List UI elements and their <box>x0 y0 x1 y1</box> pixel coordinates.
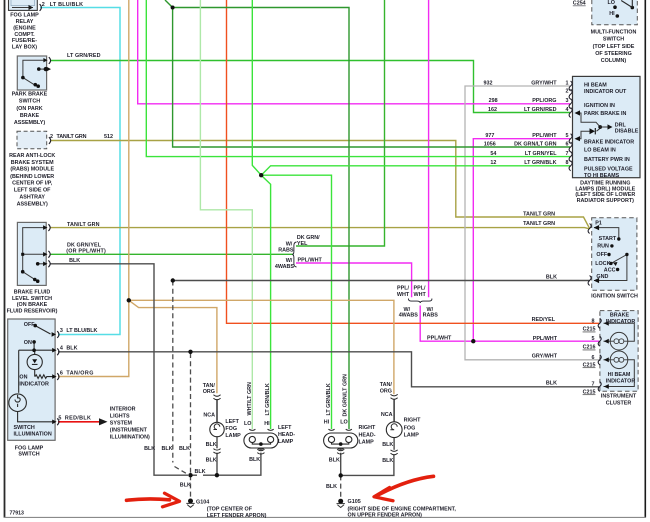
svg-text:OFF: OFF <box>596 252 607 258</box>
svg-text:C254: C254 <box>573 1 586 7</box>
svg-text:932: 932 <box>484 80 493 86</box>
svg-text:TAN/: TAN/ <box>380 382 393 388</box>
svg-text:BRAKE FLUID: BRAKE FLUID <box>14 289 51 295</box>
svg-text:RIGHT: RIGHT <box>404 418 421 424</box>
wire NCA: left fog lamp feed below connector <box>216 400 218 423</box>
wire BLK: left fog lamp ground drop <box>216 437 218 476</box>
svg-text:LIGHTS: LIGHTS <box>110 414 130 420</box>
svg-text:ON: ON <box>24 340 32 346</box>
park brake switch box <box>17 56 46 90</box>
svg-text:ASHTRAY: ASHTRAY <box>19 195 45 201</box>
wire LT GRN/BLK: top edge to fork junction <box>252 0 261 175</box>
svg-text:LT GRN/RED: LT GRN/RED <box>67 53 101 59</box>
node: right lamps ground junction G105 <box>339 473 343 477</box>
wire LT BLU/BLK cyan: relay pin2 to fog switch pin3 <box>40 8 120 335</box>
LED drop from pin4 line <box>34 350 36 354</box>
wire LT GRN/BLK branch to left headlamp HI <box>261 175 270 429</box>
svg-text:LEFT FENDER APRON): LEFT FENDER APRON) <box>207 513 267 519</box>
node: ground bus G104 junction <box>188 473 192 477</box>
svg-text:BRAKE: BRAKE <box>610 312 630 318</box>
svg-text:PARK BRAKE IN: PARK BRAKE IN <box>584 111 627 117</box>
svg-text:DK GRN/LT GRN: DK GRN/LT GRN <box>343 374 349 417</box>
svg-text:COMPT.: COMPT. <box>14 32 35 38</box>
svg-text:BLK: BLK <box>326 484 337 490</box>
pin brackets instrument cluster pins 8 5 6 7 <box>598 318 601 328</box>
switch arm OFF to pin3 <box>35 326 50 334</box>
bottom frame border <box>4 516 646 518</box>
right side wire labels <box>523 212 558 387</box>
svg-text:1: 1 <box>566 80 569 86</box>
svg-text:2: 2 <box>50 134 53 140</box>
svg-text:HI BEAM: HI BEAM <box>608 372 631 378</box>
svg-text:4: 4 <box>60 346 63 352</box>
svg-text:RED/BLK: RED/BLK <box>65 416 91 422</box>
svg-text:TAN/LT GRN: TAN/LT GRN <box>67 222 100 228</box>
svg-text:(ENGINE: (ENGINE <box>13 26 36 32</box>
svg-text:RELAY: RELAY <box>16 19 34 25</box>
label FOG LAMP RELAY <box>10 12 39 50</box>
svg-text:GND: GND <box>596 274 608 280</box>
pin bracket RABS pin2 <box>49 137 51 144</box>
svg-text:(ON BRAKE: (ON BRAKE <box>17 302 48 308</box>
svg-text:LAY BOX): LAY BOX) <box>12 45 37 51</box>
red arrow pointing at G105 <box>374 476 434 501</box>
wire LT GRN/RED: park brake switch to DRL pin4 <box>51 61 571 113</box>
svg-text:INSTRUMENT: INSTRUMENT <box>601 394 637 400</box>
pin brackets ignition switch P1 and GND <box>588 224 591 234</box>
connector left headlamp ground <box>257 449 264 454</box>
wire BLK ground bus segment at G104 <box>191 474 198 476</box>
svg-text:BLK: BLK <box>249 457 260 463</box>
wire DK GRN/YEL: brake fluid switch pin2 to brace <box>51 253 294 255</box>
svg-text:BLK: BLK <box>382 458 393 464</box>
ON contact drop <box>33 342 35 350</box>
label fog relay pin2 wire <box>42 2 83 8</box>
svg-text:ON UPPER FENDER APRON): ON UPPER FENDER APRON) <box>348 513 423 519</box>
wire RED/YEL: top edge down to instrument cluster pin8 <box>227 0 600 323</box>
node: PPL/WHT junction <box>471 339 475 343</box>
svg-text:ASSEMBLY): ASSEMBLY) <box>14 120 45 126</box>
svg-text:(BEHIND LOWER: (BEHIND LOWER <box>10 174 54 180</box>
svg-text:BLK: BLK <box>206 457 217 463</box>
connector left fog lamp top <box>213 395 220 400</box>
svg-text:G104: G104 <box>196 500 209 506</box>
label REAR ANTI-LOCK BRAKE SYSTEM <box>9 153 55 208</box>
brake indicator lamp <box>610 332 628 350</box>
svg-text:PPL/ORG: PPL/ORG <box>532 98 556 104</box>
wire LT GRN/BLK branch to right headlamp HI <box>261 175 331 429</box>
svg-text:LO: LO <box>340 420 348 426</box>
svg-text:BRAKE SYSTEM: BRAKE SYSTEM <box>11 160 54 166</box>
svg-text:BLK: BLK <box>144 446 155 452</box>
svg-text:ORG: ORG <box>380 389 392 395</box>
svg-text:7: 7 <box>592 382 595 388</box>
svg-text:NCA: NCA <box>203 412 215 418</box>
svg-text:LT GRN/BLK: LT GRN/BLK <box>524 160 556 166</box>
svg-text:C215: C215 <box>583 363 596 369</box>
DRL interior labels <box>584 82 639 179</box>
svg-text:PPL/WHT: PPL/WHT <box>532 133 557 139</box>
svg-text:LT GRN/RED: LT GRN/RED <box>524 107 557 113</box>
svg-text:GRY/WHT: GRY/WHT <box>531 80 557 86</box>
svg-text:6: 6 <box>592 355 595 361</box>
svg-text:LAMP: LAMP <box>278 439 294 445</box>
multi-function switch dashed box <box>592 0 638 25</box>
svg-text:LT GRN/BLK: LT GRN/BLK <box>265 383 271 415</box>
svg-text:TAN/ORG: TAN/ORG <box>66 371 93 377</box>
wire PPL/WHT from second brace to instrument cluster pin5 <box>420 306 599 342</box>
wire BLK ground bus right: to right fog lamp <box>341 454 394 475</box>
svg-text:RED/YEL: RED/YEL <box>532 317 556 323</box>
svg-text:8: 8 <box>592 318 595 324</box>
node: left lamps ground junction <box>215 473 219 477</box>
svg-text:TAN/LT GRN: TAN/LT GRN <box>523 212 555 218</box>
labels instrument cluster <box>601 312 637 406</box>
svg-text:C216: C216 <box>583 345 596 351</box>
svg-text:RABS: RABS <box>278 248 294 254</box>
svg-text:LAMP: LAMP <box>404 432 420 438</box>
svg-text:(ON PARK: (ON PARK <box>16 106 42 112</box>
svg-text:3: 3 <box>566 98 569 104</box>
park brake switch internals <box>23 60 46 86</box>
svg-text:CENTER OF I/P,: CENTER OF I/P, <box>12 181 53 187</box>
ground labels <box>196 499 456 519</box>
svg-text:6: 6 <box>566 141 569 147</box>
svg-text:4: 4 <box>566 107 569 113</box>
bulb to pin5 <box>18 412 55 422</box>
svg-text:PPL/: PPL/ <box>414 286 426 292</box>
resistor to pin6 <box>35 375 55 379</box>
svg-text:2: 2 <box>42 2 45 8</box>
svg-text:77913: 77913 <box>10 511 25 517</box>
svg-text:ILLUMINATION): ILLUMINATION) <box>110 435 150 441</box>
svg-text:BLK: BLK <box>66 346 77 352</box>
svg-text:PARK BRAKE: PARK BRAKE <box>12 92 48 98</box>
svg-text:5: 5 <box>58 416 61 422</box>
svg-text:BLK: BLK <box>162 446 173 452</box>
svg-text:BLK: BLK <box>195 469 206 475</box>
wire BLK: right headlamp ground drop to bus <box>340 448 342 475</box>
hi beam indicator lamp <box>610 351 628 369</box>
svg-text:HI BEAM: HI BEAM <box>584 82 607 88</box>
svg-text:OF STEERING: OF STEERING <box>595 51 632 57</box>
svg-text:MULTI-FUNCTION: MULTI-FUNCTION <box>591 30 637 36</box>
wire TAN/ORG branch to left fog lamp <box>129 300 217 393</box>
wire BLK: left headlamp ground to bus <box>217 453 261 476</box>
wire TAN/ORG branch to right fog lamp <box>129 300 394 394</box>
DRL module internals: DRL DISABLE logic <box>578 113 602 139</box>
svg-text:FOG: FOG <box>404 425 416 431</box>
svg-text:TAN/: TAN/ <box>203 383 216 389</box>
svg-text:LAMP: LAMP <box>225 433 241 439</box>
svg-text:INTERIOR: INTERIOR <box>110 407 136 413</box>
svg-text:TAN/LT GRN: TAN/LT GRN <box>57 134 87 140</box>
svg-text:ASSEMBLY): ASSEMBLY) <box>17 202 48 208</box>
svg-text:SWITCH: SWITCH <box>14 425 35 431</box>
svg-text:TAN/LT GRN: TAN/LT GRN <box>523 221 555 227</box>
svg-text:PPL/WHT: PPL/WHT <box>298 258 323 264</box>
connector right fog lamp ground <box>391 450 398 455</box>
svg-text:SWITCH: SWITCH <box>603 37 624 43</box>
ignition switch dashed box <box>592 218 637 290</box>
wire BLK bus to ignition switch GND <box>173 280 590 282</box>
svg-text:FOG LAMP: FOG LAMP <box>15 445 44 451</box>
svg-text:LEVEL SWITCH: LEVEL SWITCH <box>12 296 52 302</box>
svg-text:SWITCH: SWITCH <box>18 452 39 458</box>
DRL pin row labels <box>484 80 569 166</box>
connector right fog lamp top <box>391 394 398 399</box>
right frame border <box>644 0 646 518</box>
svg-text:W/: W/ <box>286 258 293 264</box>
svg-text:ON: ON <box>19 375 27 381</box>
svg-text:3: 3 <box>60 328 63 334</box>
svg-text:GRY/WHT: GRY/WHT <box>532 354 558 360</box>
node: DK GRN/LT GRN top junction <box>171 6 175 10</box>
pin4 internal line <box>19 349 55 351</box>
svg-text:54: 54 <box>490 151 496 157</box>
connector left fog lamp ground <box>213 449 220 454</box>
svg-text:NCA: NCA <box>381 412 393 418</box>
svg-text:LEFT: LEFT <box>278 425 292 431</box>
svg-text:5: 5 <box>592 336 595 342</box>
svg-text:SYSTEM: SYSTEM <box>110 421 133 427</box>
svg-text:DK GRN/LT GRN: DK GRN/LT GRN <box>514 141 557 147</box>
wire GRY/WHT: DRL pin1 to instrument cluster pin6 <box>465 86 599 360</box>
LED diode glyph <box>32 359 37 363</box>
svg-text:YEL: YEL <box>297 241 308 247</box>
svg-text:FLUID RESERVOIR): FLUID RESERVOIR) <box>7 309 58 315</box>
wire LT GRN/BLK branch to DRL pin8 <box>261 166 570 175</box>
svg-text:C215: C215 <box>583 327 596 333</box>
wire NCA: right fog lamp feed below connector <box>393 399 395 421</box>
svg-text:BLK: BLK <box>382 442 393 448</box>
svg-text:(TOP CENTER OF: (TOP CENTER OF <box>207 506 253 512</box>
svg-text:W/: W/ <box>286 242 293 248</box>
svg-text:FUSE/RE-: FUSE/RE- <box>12 38 37 44</box>
svg-text:PPL/WHT: PPL/WHT <box>427 336 452 342</box>
brace merging PPL/WHT pair <box>408 299 431 303</box>
svg-text:LT BLU/BLK: LT BLU/BLK <box>50 2 83 8</box>
svg-text:LEFT: LEFT <box>225 419 239 425</box>
svg-text:HI: HI <box>264 421 270 427</box>
svg-text:977: 977 <box>485 133 494 139</box>
bulb feed line <box>18 350 20 393</box>
wire BLK dashed: G105 drop <box>340 475 342 498</box>
svg-text:LAMP: LAMP <box>359 439 375 445</box>
diode in brake indicator path <box>590 128 596 134</box>
svg-text:LT GRN/BLK: LT GRN/BLK <box>326 383 332 415</box>
ground G105 <box>337 499 345 508</box>
svg-text:PPL/: PPL/ <box>397 286 409 292</box>
node: TAN/ORG junction <box>127 298 131 302</box>
svg-text:INDICATOR: INDICATOR <box>606 319 636 325</box>
svg-text:(RIGHT SIDE OF ENGINE COMPARTM: (RIGHT SIDE OF ENGINE COMPARTMENT, <box>348 506 457 512</box>
svg-text:(TOP LEFT SIDE: (TOP LEFT SIDE <box>593 44 635 50</box>
node: LT GRN/BLK fork junction <box>259 173 263 177</box>
arrows at DRL pins 4 and 5 <box>575 110 581 115</box>
svg-text:LEFT SIDE OF: LEFT SIDE OF <box>14 188 51 194</box>
svg-text:(OR PPL/WHT): (OR PPL/WHT) <box>66 249 106 255</box>
label PARK BRAKE SWITCH <box>12 92 48 127</box>
svg-text:LO: LO <box>244 421 252 427</box>
wire PPL/WHT: DRL pin5 down to junction on cluster wire <box>473 139 570 342</box>
fog lamp switch box <box>8 319 55 440</box>
svg-text:LT BLU/BLK: LT BLU/BLK <box>66 328 97 334</box>
svg-text:P1: P1 <box>595 221 602 227</box>
svg-text:HEAD-: HEAD- <box>359 432 376 438</box>
svg-text:HEAD-: HEAD- <box>278 432 295 438</box>
wire LT GRN/YEL: top edge to DRL pin7 <box>146 0 570 157</box>
wire BLK: right fog lamp ground drop <box>393 438 395 450</box>
wire BLK dashed: pin4 junction down to ground bus <box>190 353 192 473</box>
svg-text:4WABS: 4WABS <box>399 313 419 319</box>
pin brackets fog lamp switch <box>57 331 59 338</box>
svg-text:RABS: RABS <box>423 313 439 319</box>
svg-text:LO: LO <box>608 0 616 6</box>
LED to resistor <box>34 370 36 377</box>
wire TAN/LT GRN 512: RABS module to ignition switch P1 <box>51 141 590 229</box>
ignition switch internals <box>594 228 627 281</box>
svg-text:G105: G105 <box>348 499 361 505</box>
pin bracket park brake switch <box>49 57 51 64</box>
svg-text:PPL/WHT: PPL/WHT <box>533 336 558 342</box>
wire TAN/ORG branch to fog switch pin6 <box>58 300 129 376</box>
wire WHT/LT GRN: top edge to left headlamp LO <box>200 0 252 429</box>
arrowhead interior lights <box>99 418 108 425</box>
svg-text:CLUSTER: CLUSTER <box>606 400 632 406</box>
DRL module box <box>573 76 641 177</box>
svg-text:INDICATOR OUT: INDICATOR OUT <box>584 89 627 95</box>
svg-text:8: 8 <box>566 160 569 166</box>
wire DK GRN/LT GRN: top edge via junction to right headlamp LO and DRL pin6 <box>165 0 349 429</box>
svg-text:HI: HI <box>324 420 330 426</box>
brace W/RABS W/4WABS splitting DK GRN/YEL and PPL/WHT <box>292 242 296 267</box>
svg-text:2: 2 <box>566 89 569 95</box>
multi-function switch internals <box>613 0 634 18</box>
svg-text:INDICATOR: INDICATOR <box>606 379 636 385</box>
labels W/ RABS brace <box>275 242 295 270</box>
connector right headlamp ground <box>337 449 344 454</box>
wire BLK dashed: bus junction down to ground bus <box>173 281 188 475</box>
svg-text:BATTERY PWR IN: BATTERY PWR IN <box>584 157 630 163</box>
svg-text:RIGHT: RIGHT <box>359 425 376 431</box>
labels fog switch pins <box>60 328 98 334</box>
svg-text:WHT/LT GRN: WHT/LT GRN <box>247 382 253 416</box>
svg-text:12: 12 <box>490 160 496 166</box>
wire BLK: brake fluid switch pin3 down to ground bus <box>51 264 189 475</box>
LED circle <box>27 354 42 369</box>
RABS module dashed box <box>17 131 47 148</box>
svg-text:ORG: ORG <box>203 389 215 395</box>
svg-text:BRAKE: BRAKE <box>20 113 40 119</box>
svg-text:IGNITION IN: IGNITION IN <box>584 103 615 109</box>
brake fluid level switch internals <box>23 228 44 281</box>
svg-text:INDICATOR: INDICATOR <box>19 381 49 387</box>
pin brackets DRL module pins 1-8 <box>569 81 572 91</box>
svg-text:REAR ANTI-LOCK: REAR ANTI-LOCK <box>9 153 55 159</box>
label DAYTIME RUNNING LAMPS MODULE <box>575 180 635 204</box>
svg-text:BLK: BLK <box>69 258 80 264</box>
wire PPL/WHT branch from brace to second brace <box>296 263 412 297</box>
svg-text:(INSTRUMENT: (INSTRUMENT <box>110 428 148 434</box>
svg-text:IGNITION SWITCH: IGNITION SWITCH <box>591 294 638 300</box>
svg-text:DK GRN/YEL: DK GRN/YEL <box>67 242 102 248</box>
labels PPL/WHT merge brace <box>397 286 438 319</box>
illumination bulb circle <box>9 394 27 412</box>
svg-text:162: 162 <box>488 107 497 113</box>
svg-text:OFF: OFF <box>24 322 35 328</box>
hi beam lamp wiring <box>604 360 635 387</box>
svg-text:WHT: WHT <box>397 292 410 298</box>
instrument cluster dashed box <box>600 311 638 392</box>
svg-text:DISABLE: DISABLE <box>615 128 639 134</box>
left frame border <box>4 0 6 518</box>
left headlamp oval <box>244 429 278 449</box>
left fog lamp bulb <box>210 422 224 436</box>
svg-text:ILLUMINATION: ILLUMINATION <box>14 432 52 438</box>
red arrow pointing at G104 <box>127 493 180 507</box>
svg-text:BLK: BLK <box>546 274 557 280</box>
wire TAN/LT GRN: brake fluid switch pin1 to ignition switch P1 <box>51 228 590 229</box>
right headlamp oval <box>324 429 358 449</box>
right fog lamp bulb <box>386 422 402 438</box>
wire TAN/ORG: top edge down to junction dot <box>128 0 130 300</box>
labels ignition switch <box>595 221 617 280</box>
wire DK GRN/LT GRN branch to DRL pin6 <box>173 8 570 148</box>
svg-text:BLK: BLK <box>329 457 340 463</box>
svg-text:298: 298 <box>489 98 498 104</box>
svg-text:WHT: WHT <box>414 292 427 298</box>
pin bracket fog relay pin2 <box>40 4 42 11</box>
bulb filament <box>15 395 20 407</box>
PIN BRACKETS <box>40 4 602 425</box>
label INTERIOR LIGHTS SYSTEM <box>110 407 150 441</box>
BLK labels bottom area <box>144 442 393 490</box>
fog lamp switch internals <box>9 326 55 422</box>
brake fluid level switch box <box>17 222 46 285</box>
node: BLK bus junction at dashed drop <box>171 278 175 282</box>
svg-text:1056: 1056 <box>484 141 496 147</box>
svg-text:LT GRN/YEL: LT GRN/YEL <box>525 151 557 157</box>
svg-text:START: START <box>599 236 617 242</box>
wire PPL/WHT from top edge to second brace <box>428 0 430 297</box>
node: BLK pin4 wire junction <box>188 350 192 354</box>
svg-text:BLK: BLK <box>546 380 557 386</box>
svg-text:6: 6 <box>60 371 63 377</box>
svg-text:BLK: BLK <box>180 482 191 488</box>
wire DK GRN/YEL branch from brace up to top edge <box>296 0 385 246</box>
svg-text:TO HI BEAMS: TO HI BEAMS <box>584 173 620 179</box>
svg-text:SWITCH: SWITCH <box>19 99 40 105</box>
wire RED/BLK: fog switch pin5 to interior lights arrow <box>58 421 100 423</box>
svg-text:ACC: ACC <box>604 267 616 273</box>
svg-text:COLUMN): COLUMN) <box>601 58 627 64</box>
wire BLK: left headlamp lamp to connector <box>260 447 262 450</box>
svg-text:5: 5 <box>566 133 569 139</box>
svg-text:HI: HI <box>609 11 615 17</box>
brake indicator lamp loop wiring <box>604 323 635 341</box>
svg-text:RUN: RUN <box>597 244 609 250</box>
pin brackets brake fluid switch <box>48 224 50 231</box>
svg-text:LO BEAM IN: LO BEAM IN <box>584 147 616 153</box>
svg-text:4WABS: 4WABS <box>275 264 295 270</box>
svg-text:BLK: BLK <box>179 446 190 452</box>
svg-text:RADIATOR SUPPORT): RADIATOR SUPPORT) <box>577 198 635 204</box>
ground G104 <box>186 499 194 508</box>
fog lamp relay box <box>9 0 38 10</box>
wire BLK dashed: G104 drop <box>190 475 192 498</box>
svg-text:C215: C215 <box>583 390 596 396</box>
